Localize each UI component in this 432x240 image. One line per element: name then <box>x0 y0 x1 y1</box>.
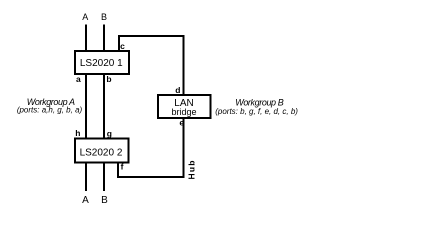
svg-text:g: g <box>107 129 112 139</box>
svg-text:B: B <box>101 195 108 206</box>
svg-text:e: e <box>179 118 184 128</box>
svg-text:(ports: a,h, g, b, a): (ports: a,h, g, b, a) <box>17 106 83 115</box>
wire trunk B bottom segment <box>103 164 105 192</box>
svg-text:LS2020 2: LS2020 2 <box>80 148 123 159</box>
svg-text:A: A <box>82 195 89 206</box>
svg-text:c: c <box>120 41 125 51</box>
wire trunk A bottom segment <box>85 164 87 192</box>
wire bottom horizontal f-to-e <box>118 176 185 178</box>
svg-text:b: b <box>106 74 111 84</box>
svg-text:d: d <box>175 85 180 95</box>
wire trunk A middle segment <box>85 75 87 138</box>
wire port e vertical <box>183 119 185 178</box>
svg-text:f: f <box>121 162 124 172</box>
node LS2020 1 box <box>75 51 129 74</box>
wire trunk A top segment <box>85 25 87 51</box>
wire trunk B top segment <box>103 25 105 51</box>
svg-text:LS2020 1: LS2020 1 <box>80 58 123 69</box>
node LAN bridge box <box>158 95 211 118</box>
svg-text:B: B <box>101 12 107 22</box>
wire top horizontal c-to-d <box>118 35 185 37</box>
svg-text:h: h <box>75 128 80 138</box>
wire port f vertical <box>117 164 119 179</box>
svg-text:a: a <box>76 74 81 84</box>
wire port d vertical <box>183 35 185 94</box>
svg-text:bridge: bridge <box>171 107 196 117</box>
svg-text:A: A <box>82 12 88 22</box>
node LS2020 2 box <box>75 139 129 163</box>
wire trunk B middle segment <box>103 75 105 138</box>
wire port c vertical <box>118 35 120 50</box>
svg-text:Hub: Hub <box>187 159 197 179</box>
svg-text:(ports: b, g, f, e, d, c, b): (ports: b, g, f, e, d, c, b) <box>215 107 298 116</box>
